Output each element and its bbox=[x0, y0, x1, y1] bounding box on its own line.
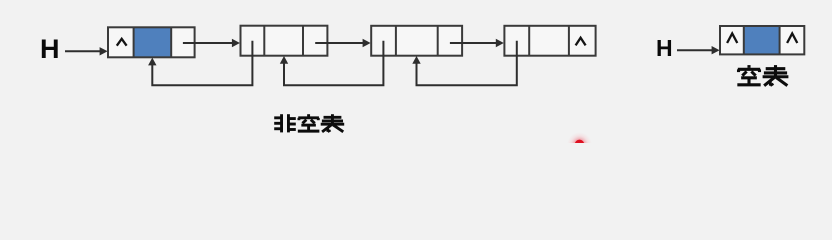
wire: node4.prev back arrow to node3 bbox=[417, 41, 517, 86]
wire: node3.prev back arrow to node2 bbox=[284, 41, 383, 86]
svg-text:H: H bbox=[656, 35, 673, 61]
node empty-list head (^ | data | ^) bbox=[720, 26, 804, 54]
wire: head.next arrow to node2 bbox=[183, 42, 233, 44]
wire: H to head node arrow bbox=[65, 50, 101, 52]
node 3 bbox=[371, 26, 462, 56]
svg-text:H: H bbox=[40, 34, 60, 64]
node head (prev ^ | data | next) bbox=[108, 27, 195, 57]
label: 空表 (empty list) bbox=[737, 65, 788, 86]
wire: node3.next arrow to node4 bbox=[450, 42, 497, 44]
null mark ^ in tail next cell bbox=[576, 38, 586, 46]
label: 非空表 (non-empty list) bbox=[274, 114, 344, 132]
null mark ^ in prev cell of empty-list node bbox=[727, 33, 737, 43]
node 2 bbox=[241, 26, 328, 56]
null mark ^ in head prev cell bbox=[117, 39, 127, 46]
null mark ^ in next cell of empty-list node bbox=[787, 33, 797, 43]
node 4 (tail) bbox=[504, 26, 595, 56]
wire: node2.prev back arrow to head node bbox=[152, 41, 252, 86]
wire: node2.next arrow to node3 bbox=[315, 42, 363, 44]
wire: H to empty-list node arrow bbox=[677, 49, 713, 51]
laser pointer red dot bbox=[567, 132, 592, 157]
